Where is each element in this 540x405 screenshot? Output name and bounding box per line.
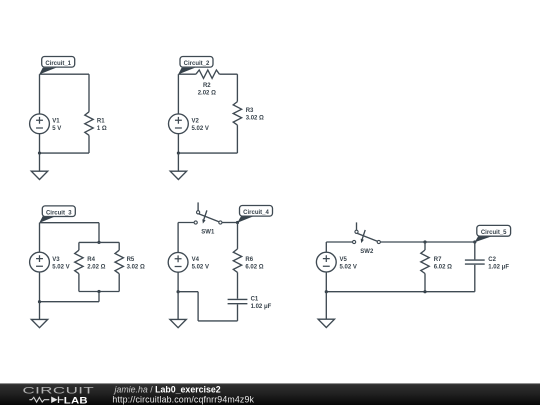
- svg-text:5.02 V: 5.02 V: [340, 264, 357, 270]
- junction dot parallel top (circuit 3): [97, 241, 100, 244]
- svg-text:R3: R3: [246, 108, 254, 114]
- svg-text:V2: V2: [192, 118, 200, 124]
- svg-text:jamie.ha / Lab0_exercise2: jamie.ha / Lab0_exercise2: [114, 384, 221, 394]
- svg-text:C2: C2: [488, 257, 496, 263]
- wire bottom-right drop (circuit 3): [98, 292, 100, 302]
- wire bottom (circuit 5): [326, 291, 475, 293]
- svg-text:http://circuitlab.com/cqfnrr94: http://circuitlab.com/cqfnrr94m4z9k: [112, 395, 254, 405]
- wire left lower (circuit 1): [39, 134, 41, 153]
- svg-text:Circuit_1: Circuit_1: [45, 61, 71, 67]
- svg-text:SW2: SW2: [360, 249, 374, 255]
- wire left upper (circuit 4): [177, 223, 179, 253]
- ground (circuit 3): [31, 319, 47, 327]
- wire ground stub (circuit 1): [39, 153, 41, 171]
- svg-text:6.02 Ω: 6.02 Ω: [245, 264, 263, 270]
- wire parallel bottom bar (circuit 3): [79, 291, 119, 293]
- wire bottom jog horizontal 2 (circuit 4): [198, 320, 237, 322]
- wire bottom (circuit 2): [178, 152, 237, 154]
- ground (circuit 1): [31, 171, 47, 179]
- wire left lower (circuit 5): [325, 272, 327, 292]
- logo diode: [51, 397, 57, 404]
- ground (circuit 2): [170, 171, 186, 179]
- wire C2 bottom stub: [474, 265, 476, 292]
- voltage source V2: [169, 114, 189, 134]
- wire bottom (circuit 1): [40, 152, 90, 154]
- svg-text:1 Ω: 1 Ω: [97, 126, 107, 132]
- wire top-left segment (circuit 2): [178, 73, 196, 75]
- wire top (circuit 3): [40, 222, 100, 224]
- svg-text:5 V: 5 V: [52, 126, 61, 132]
- ground (circuit 4): [170, 319, 186, 327]
- wire left lower (circuit 3): [39, 272, 41, 302]
- junction dot circuit 4 ground node: [177, 290, 180, 293]
- svg-text:5.02 V: 5.02 V: [192, 126, 209, 132]
- svg-text:R2: R2: [203, 83, 211, 89]
- svg-text:R4: R4: [87, 257, 95, 263]
- wire parallel top bar (circuit 3): [79, 241, 119, 243]
- wire R4 bottom stub: [78, 274, 80, 292]
- svg-text:SW1: SW1: [201, 229, 215, 235]
- wire R5 bottom stub: [118, 274, 120, 292]
- wire C2 top stub: [474, 242, 476, 259]
- capacitor C1: [228, 299, 248, 303]
- resistor R6: [233, 249, 241, 272]
- wire to switch (circuit 5): [326, 241, 352, 243]
- wire C1 bottom stub: [237, 304, 239, 321]
- junction dot circuit 4 top node: [236, 221, 239, 224]
- wire top (circuit 1): [40, 73, 90, 75]
- wire right lower (circuit 2): [236, 125, 238, 153]
- svg-text:V1: V1: [52, 118, 60, 124]
- svg-text:V4: V4: [192, 257, 200, 263]
- wire switch to node (circuit 4): [222, 222, 238, 224]
- node label Circuit_5 box: [477, 225, 511, 236]
- wire R7 bottom stub: [424, 274, 426, 292]
- svg-text:V5: V5: [340, 257, 348, 263]
- resistor R5: [115, 250, 123, 273]
- wire right upper (circuit 2): [236, 74, 238, 101]
- svg-text:3.02 Ω: 3.02 Ω: [127, 264, 145, 270]
- voltage source V5: [316, 252, 336, 272]
- wire R5 top stub: [118, 242, 120, 250]
- node label Circuit_4 pointer: [237, 216, 255, 223]
- voltage source V4: [168, 252, 188, 272]
- svg-text:C1: C1: [251, 297, 259, 303]
- voltage source V3: [30, 252, 50, 272]
- wire ground stub (circuit 2): [177, 153, 179, 171]
- junction dot C2 top (circuit 5): [473, 240, 476, 243]
- svg-text:Circuit_3: Circuit_3: [46, 210, 72, 216]
- junction dot circuit 5 ground node: [325, 290, 328, 293]
- junction dot circuit 3 ground node: [38, 300, 41, 303]
- svg-text:R1: R1: [97, 118, 105, 124]
- resistor R1: [85, 112, 93, 136]
- svg-text:R6: R6: [245, 257, 253, 263]
- wire R6 top stub: [237, 223, 239, 249]
- wire right lower (circuit 1): [88, 135, 90, 153]
- svg-text:5.02 V: 5.02 V: [52, 264, 69, 270]
- wire left upper (circuit 3): [39, 223, 41, 253]
- node label Circuit_1 box: [42, 57, 75, 68]
- svg-text:2.02 Ω: 2.02 Ω: [198, 91, 216, 97]
- svg-text:CIRCUIT: CIRCUIT: [23, 385, 95, 395]
- wire left lower (circuit 4): [177, 272, 179, 292]
- wire right upper (circuit 1): [88, 74, 90, 112]
- wire bottom jog vertical (circuit 4): [197, 292, 199, 321]
- node label Circuit_2 box: [180, 57, 213, 68]
- svg-text:3.02 Ω: 3.02 Ω: [246, 116, 264, 122]
- capacitor C2: [465, 260, 485, 264]
- svg-text:2.02 Ω: 2.02 Ω: [87, 264, 105, 270]
- wire R7 top stub: [424, 242, 426, 250]
- logo waveform zigzag: [29, 397, 49, 402]
- wire top-right segment (circuit 2): [219, 73, 237, 75]
- resistor R7: [421, 250, 429, 273]
- wire ground stub (circuit 3): [39, 302, 41, 320]
- svg-text:6.02 Ω: 6.02 Ω: [434, 264, 452, 270]
- svg-text:LAB: LAB: [64, 396, 88, 405]
- switch SW1: [194, 202, 222, 224]
- node label Circuit_5 pointer: [475, 236, 492, 242]
- node label Circuit_1 pointer: [39, 68, 56, 75]
- wire switch to C2 node (circuit 5): [380, 241, 474, 243]
- wire left upper (circuit 1): [39, 74, 41, 114]
- wire left upper (circuit 2): [177, 74, 179, 114]
- footer bar: [0, 383, 540, 405]
- junction dot parallel bottom (circuit 3): [97, 290, 100, 293]
- svg-text:Circuit_2: Circuit_2: [184, 61, 210, 67]
- wire bottom (circuit 3): [40, 301, 100, 303]
- wire left upper (circuit 5): [325, 242, 327, 252]
- svg-text:V3: V3: [52, 257, 60, 263]
- node label Circuit_3 pointer: [39, 216, 56, 223]
- ground (circuit 5): [318, 319, 334, 327]
- resistor R4: [75, 250, 83, 273]
- wire ground stub (circuit 5): [325, 292, 327, 320]
- wire bottom jog horizontal 1 (circuit 4): [178, 291, 198, 293]
- junction dot R7 top (circuit 5): [423, 240, 426, 243]
- svg-text:Circuit_5: Circuit_5: [481, 230, 507, 236]
- switch SW2: [353, 222, 381, 243]
- svg-text:R5: R5: [127, 257, 135, 263]
- svg-text:1.02 μF: 1.02 μF: [251, 304, 272, 310]
- wire R4 top stub: [78, 242, 80, 250]
- wire ground stub (circuit 4): [177, 292, 179, 320]
- voltage source V1: [30, 114, 50, 134]
- resistor R3: [233, 102, 241, 126]
- node label Circuit_2 pointer: [178, 68, 195, 75]
- wire left lower (circuit 2): [177, 134, 179, 153]
- svg-text:Circuit_4: Circuit_4: [243, 210, 269, 216]
- wire R6 to C1: [237, 272, 239, 298]
- svg-text:R7: R7: [434, 257, 442, 263]
- svg-text:5.02 V: 5.02 V: [192, 264, 209, 270]
- node label Circuit_4 box: [240, 206, 273, 217]
- junction dot R7 bottom (circuit 5): [423, 290, 426, 293]
- wire to switch (circuit 4): [178, 222, 194, 224]
- node label Circuit_3 box: [42, 206, 75, 217]
- junction dot circuit 2 ground node: [177, 151, 180, 154]
- junction dot circuit 1 ground node: [38, 151, 41, 154]
- wire top-right drop (circuit 3): [98, 223, 100, 243]
- svg-text:1.02 μF: 1.02 μF: [488, 264, 509, 270]
- resistor R2 (horizontal): [196, 70, 220, 78]
